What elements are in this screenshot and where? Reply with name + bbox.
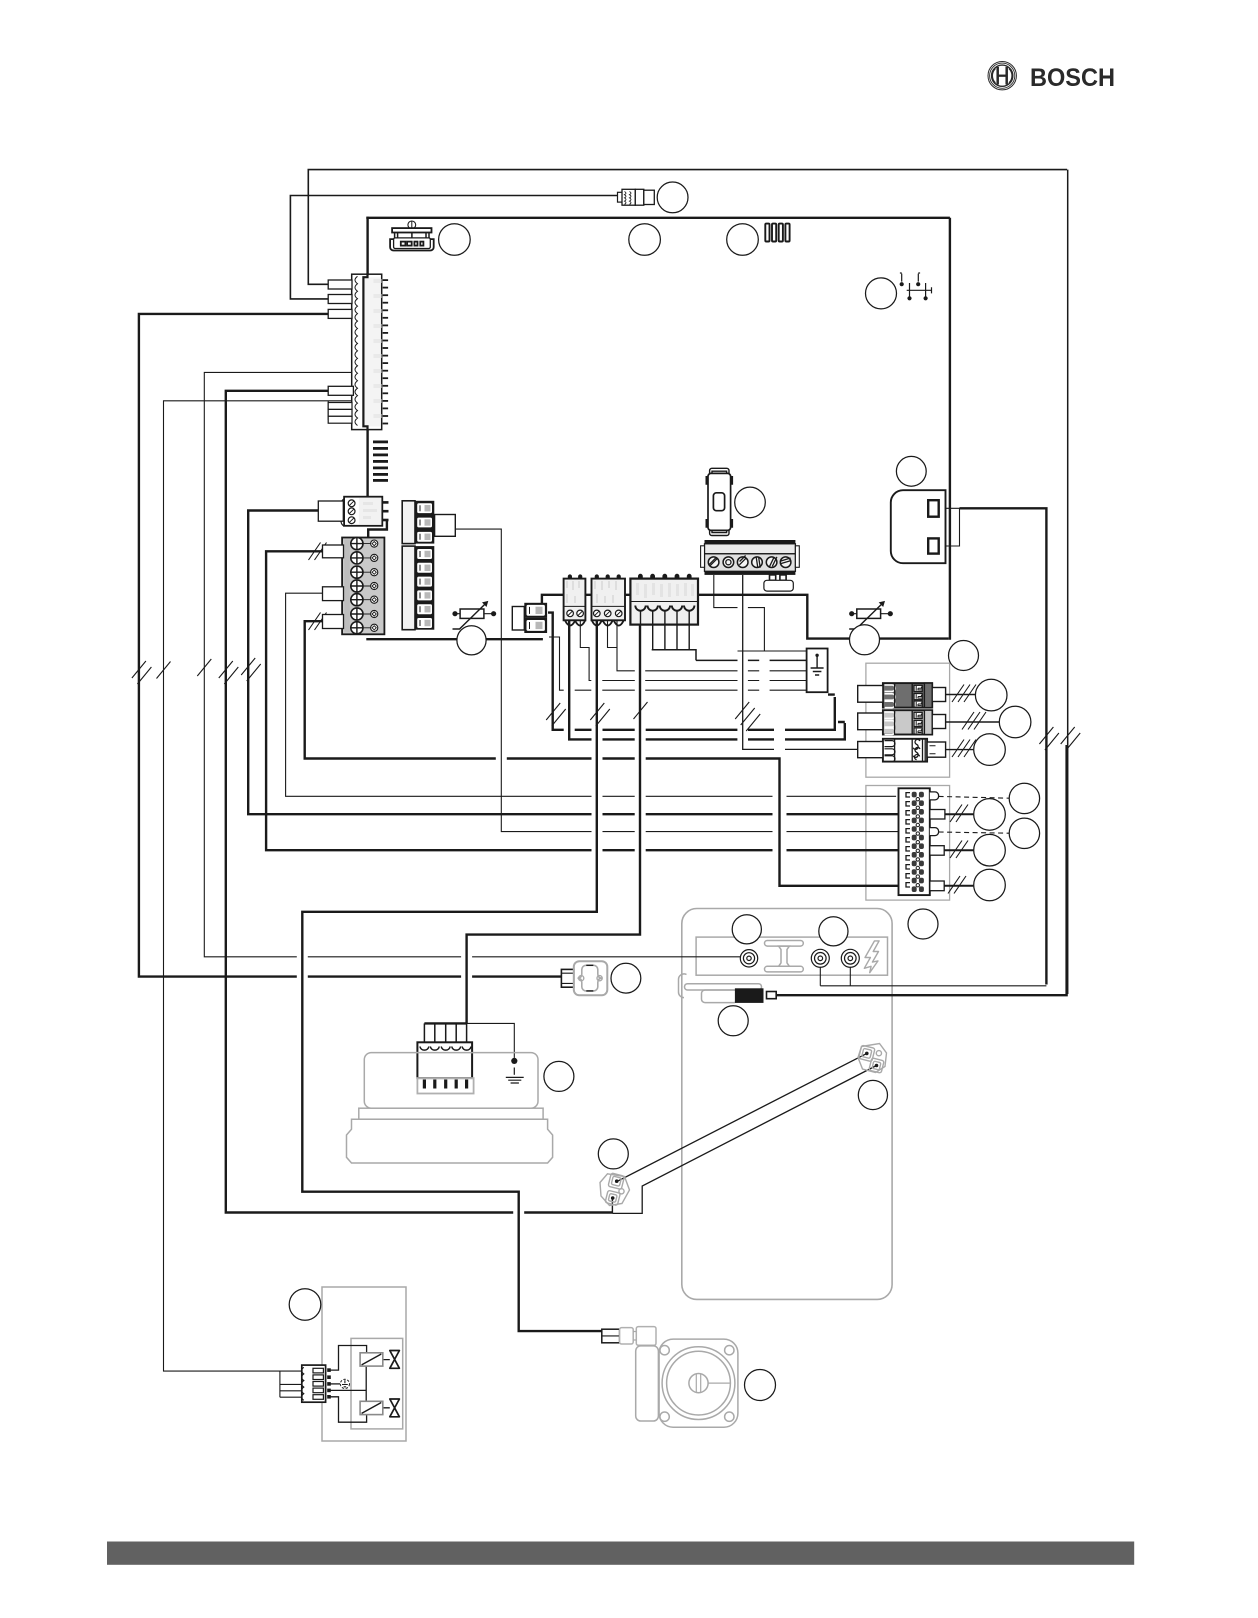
solenoid coil 2 bbox=[360, 1401, 383, 1414]
potentiometer symbol 1 bbox=[452, 601, 496, 629]
LED bars icon bbox=[765, 224, 789, 242]
display lead plug icon bbox=[618, 189, 655, 205]
terminal block C bbox=[630, 574, 698, 625]
pump connector plug bbox=[602, 1327, 656, 1346]
module2 feed wire bbox=[569, 621, 845, 739]
flame rod pin bbox=[767, 992, 777, 999]
spark electrode bracket bbox=[678, 974, 761, 1003]
wire W13 igniter thin bbox=[204, 372, 740, 956]
earth bus block C bbox=[652, 650, 807, 661]
relay gray box 1 bbox=[866, 663, 950, 777]
relay row5 output bbox=[944, 885, 973, 887]
potentiometer symbol 2 bbox=[849, 601, 893, 629]
valve ground stub bbox=[331, 1383, 341, 1385]
valve coil mid bus bbox=[365, 1366, 367, 1402]
valve connector left bus bbox=[280, 1371, 302, 1397]
terminal strip J2 bbox=[701, 540, 800, 591]
valve connector wire slot1 bbox=[331, 1346, 367, 1371]
screw block ST body bbox=[341, 497, 388, 527]
valve 1 bowtie bbox=[390, 1351, 400, 1369]
earth bus block C claw drops bbox=[653, 621, 690, 650]
wire T1 to relay row2 bbox=[248, 511, 898, 815]
relay module 2 (light gray) bbox=[858, 710, 946, 734]
wire T2 to relay row4 bbox=[266, 551, 898, 850]
board bottom bus left bbox=[366, 638, 543, 640]
plug row2 bbox=[328, 295, 352, 304]
earth wire from strip screw1 bbox=[714, 575, 807, 651]
wire W15 spark electrode bbox=[226, 391, 613, 1213]
earth wire h4 bbox=[549, 637, 807, 690]
jumper pins icon bbox=[900, 273, 932, 300]
terminal block A bbox=[564, 574, 586, 625]
module3 output wire bbox=[946, 749, 974, 751]
wire W2 display lead bbox=[290, 196, 618, 299]
gray block plug T3 bbox=[323, 587, 344, 601]
pill jumper component bbox=[707, 468, 732, 535]
board left edge mid segment bbox=[366, 430, 368, 498]
earth wire h2 bbox=[608, 621, 807, 671]
wire fuse-connector to relay row3 bbox=[455, 529, 898, 832]
gray terminal block body bbox=[342, 538, 384, 635]
relay row4 output bbox=[944, 849, 973, 851]
fan connector pin drops bbox=[424, 1023, 466, 1046]
module3 feed wire bbox=[743, 575, 858, 749]
main connector right pins bbox=[383, 279, 388, 424]
plug group rows 17-19 bbox=[328, 403, 352, 410]
power inlet connector bbox=[891, 490, 946, 563]
main connector wavy contact column bbox=[355, 276, 358, 425]
igniter electrode terminal left bbox=[740, 950, 757, 967]
wire T4 to relay row5 bbox=[305, 621, 899, 886]
gray block plug T2 bbox=[323, 545, 344, 558]
valve box connector bbox=[302, 1365, 331, 1402]
slash marks right verticals bbox=[1039, 727, 1080, 750]
fuse group 2 (6 fuses) bbox=[415, 546, 434, 630]
pump body gray bbox=[346, 1053, 552, 1163]
service connector icon (top left of board) bbox=[390, 221, 434, 251]
valve box outer bbox=[322, 1287, 406, 1441]
lightning bolt icon bbox=[864, 941, 879, 973]
fuse column panel 1 bbox=[402, 501, 415, 544]
svg-text:BOSCH: BOSCH bbox=[1030, 64, 1115, 92]
fan wire W-B bbox=[467, 621, 640, 1023]
terminal block B bbox=[592, 574, 626, 625]
earth terminal box bbox=[807, 649, 828, 693]
screw block plug T1 bbox=[318, 501, 343, 521]
fuse column panel 2 bbox=[402, 546, 415, 630]
flame rod connector black bbox=[735, 988, 764, 1003]
board outline left edge upper bbox=[366, 217, 368, 275]
board left edge jog at screw block bbox=[368, 521, 387, 539]
valve wire slot5 bbox=[331, 1397, 367, 1422]
slash marks T2 T4 horizontals bbox=[309, 543, 327, 631]
solenoid coil 1 bbox=[360, 1353, 383, 1366]
fan connector bus bbox=[424, 1022, 466, 1024]
slash marks module verticals bbox=[546, 702, 760, 731]
fan connector body bbox=[417, 1042, 473, 1093]
board outline right edge bbox=[949, 218, 951, 640]
fan earth branch bbox=[467, 1023, 515, 1058]
wire W3 flame plug return bbox=[139, 314, 562, 977]
wire T3 to relay row1 bbox=[286, 593, 897, 796]
ignition transformer spool icon bbox=[765, 941, 804, 972]
wire right outer vertical bbox=[1067, 170, 1069, 994]
gas valve assembly outline bbox=[682, 909, 892, 1300]
slash marks module outputs bbox=[952, 685, 986, 758]
relay multipin connector bbox=[899, 788, 945, 895]
wire W15 electrode stub bbox=[611, 1199, 613, 1213]
slash marks relay outputs bbox=[948, 805, 968, 894]
electrode diagonal wire 1 bbox=[617, 1053, 867, 1181]
spark electrode holder right bbox=[858, 1044, 887, 1074]
main edge connector X1 body bbox=[352, 273, 382, 430]
relay row3 dashed link bbox=[939, 832, 1010, 833]
igniter transformer output wires bbox=[820, 967, 1046, 986]
footer bar bbox=[107, 1542, 1134, 1565]
Bosch logo symbol bbox=[988, 61, 1016, 89]
relay module 3 (white) bbox=[858, 739, 946, 762]
flame sensor socket gray bbox=[574, 961, 608, 995]
igniter transformer output terminals bbox=[811, 949, 859, 967]
valve ground circle symbol bbox=[340, 1379, 349, 1388]
board outline top bbox=[366, 217, 950, 219]
power inlet wire thick bbox=[960, 508, 1047, 984]
board bottom bus notch bbox=[542, 595, 949, 639]
wire W17 valve feed bbox=[164, 401, 353, 1371]
fuse group 1 (3 fuses) bbox=[415, 501, 434, 544]
fuse output connector box bbox=[435, 515, 456, 537]
earth wire h3 bbox=[580, 621, 806, 681]
slash marks left verticals bbox=[132, 658, 261, 684]
flame sensor wire thick bbox=[776, 745, 1066, 995]
pump motor bbox=[636, 1339, 738, 1427]
electrode diagonal wire 2 bbox=[612, 1066, 876, 1214]
valve box inner bbox=[351, 1338, 403, 1429]
plug row3 bbox=[328, 309, 352, 318]
ignition module inner box bbox=[696, 937, 887, 975]
relay row2 output bbox=[945, 813, 974, 815]
relay module 1 (dark) bbox=[858, 683, 946, 708]
gray block plug T4 bbox=[323, 615, 344, 629]
main connector left plug row1 bbox=[328, 280, 352, 289]
valve wire slot4 bbox=[331, 1389, 367, 1391]
fan earth dot and ground bbox=[506, 1058, 524, 1083]
valve 2 bowtie bbox=[390, 1399, 400, 1417]
module1 feed wire bbox=[548, 613, 835, 730]
callout circles bbox=[289, 182, 1039, 1401]
spark electrode holder left bbox=[600, 1173, 630, 1206]
relay row1 dashed link bbox=[939, 796, 1010, 798]
comb marks below connector bbox=[373, 441, 388, 482]
pump wire W-A bbox=[302, 621, 602, 1331]
module2 output wire bbox=[946, 721, 999, 723]
plug row15 bbox=[328, 386, 353, 395]
wire W1 outer loop row1 bbox=[308, 170, 1067, 285]
relay gray box 2 bbox=[866, 786, 950, 901]
module1 output wire bbox=[946, 694, 976, 696]
valve bowtie links bbox=[383, 1360, 390, 1408]
left fuse holder F1 bbox=[512, 603, 547, 633]
flame sensor plug black bbox=[561, 969, 573, 987]
power inlet pin link bbox=[940, 508, 960, 546]
